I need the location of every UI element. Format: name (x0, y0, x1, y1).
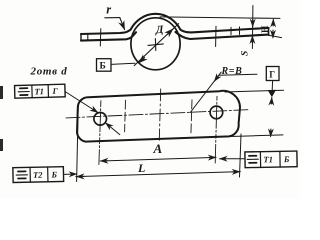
svg-text:r: r (106, 3, 111, 17)
svg-text:Т2: Т2 (33, 170, 43, 180)
svg-text:Г: Г (51, 86, 58, 96)
svg-text:Т1: Т1 (263, 154, 273, 164)
svg-text:S: S (240, 51, 250, 56)
svg-text:Д: Д (154, 24, 164, 37)
svg-text:Б: Б (100, 62, 106, 72)
svg-text:А: А (153, 141, 163, 156)
svg-text:Г: Г (269, 70, 275, 80)
svg-text:2отв d: 2отв d (30, 65, 68, 77)
svg-text:Н: Н (261, 25, 271, 33)
svg-text:Б: Б (50, 169, 57, 179)
svg-text:Б: Б (283, 154, 290, 164)
svg-text:R=В: R=В (221, 66, 243, 77)
svg-text:L: L (137, 161, 145, 175)
svg-text:Т1: Т1 (34, 86, 44, 96)
